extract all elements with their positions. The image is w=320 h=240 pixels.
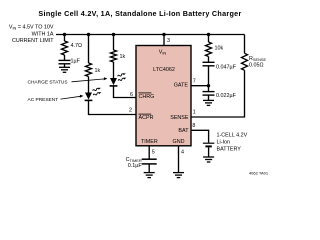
junction dot GATE node (207, 84, 210, 87)
svg-text:Li-Ion: Li-Ion (217, 140, 231, 146)
label AC PRESENT callout (28, 95, 84, 103)
svg-text:10k: 10k (215, 46, 224, 52)
wire rail to VIN pin 3 (163, 35, 165, 46)
LED D2 CHARGE STATUS (110, 73, 127, 86)
svg-text:5: 5 (152, 149, 155, 155)
wire R1k to LED (CHRG) (113, 62, 115, 78)
svg-text:1k: 1k (120, 54, 126, 60)
svg-text:SENSE: SENSE (170, 115, 189, 121)
wire rail down to RSENSE (244, 35, 246, 54)
svg-text:3: 3 (167, 38, 170, 44)
svg-text:1: 1 (193, 110, 196, 116)
resistor 4.7 ohm (62, 41, 83, 55)
wire R4.7 to C 1uF (64, 55, 66, 60)
ground under 0.022uF (203, 100, 214, 105)
svg-text:TIMER: TIMER (141, 139, 158, 145)
svg-text:0.022µF: 0.022µF (216, 93, 237, 99)
svg-text:0.1µF: 0.1µF (128, 163, 143, 169)
svg-text:4062 TA01: 4062 TA01 (249, 170, 269, 175)
svg-text:CURRENT LIMIT: CURRENT LIMIT (12, 38, 54, 44)
wire RSENSE to SENSE pin 1 (191, 70, 245, 117)
resistor RSENSE 0.05 ohm (242, 53, 267, 70)
ground under battery (203, 157, 214, 162)
wire rail to R 4.7 (64, 35, 66, 42)
wire rail to R1k (ACPR LED) (88, 35, 90, 64)
junction dot rail/10k (207, 33, 210, 36)
junction dot rail/1k(ACPR LED) (87, 33, 90, 36)
svg-text:4: 4 (181, 149, 184, 155)
LED D1 AC PRESENT (85, 88, 102, 101)
svg-text:LTC4062: LTC4062 (153, 67, 175, 73)
svg-text:GATE: GATE (174, 83, 189, 89)
svg-text:BATTERY: BATTERY (217, 147, 242, 153)
svg-text:2: 2 (129, 108, 132, 114)
wire R1k to LED (ACPR) (88, 77, 90, 93)
svg-text:CHRG: CHRG (139, 94, 155, 100)
wire R10k to C 0.047uF (208, 57, 210, 63)
wire BAT pin 8 (191, 130, 209, 142)
svg-text:CHARGE STATUS: CHARGE STATUS (28, 80, 68, 86)
label CHARGE STATUS callout (28, 77, 108, 85)
ground under CTIMER (144, 173, 155, 178)
resistor 1k (CHRG LED) (111, 50, 126, 62)
wire GND pin 4 (178, 146, 180, 173)
capacitor 0.022uF (203, 92, 237, 99)
wire rail to R1k (CHRG LED) (113, 35, 115, 51)
svg-text:0.047µF: 0.047µF (216, 65, 237, 71)
svg-text:6: 6 (130, 92, 133, 98)
svg-text:AC PRESENT: AC PRESENT (28, 97, 59, 103)
svg-text:VIN: VIN (159, 49, 167, 55)
wire VIN top rail (56, 34, 245, 36)
node VIN input label (9, 25, 54, 44)
svg-text:1µF: 1µF (71, 59, 81, 65)
wire LED to CHRG pin 6 (114, 86, 137, 98)
resistor 1k (ACPR LED) (86, 63, 101, 77)
svg-text:8: 8 (192, 123, 195, 129)
junction dot rail/VIN pin (162, 33, 165, 36)
svg-text:0.05Ω: 0.05Ω (249, 63, 264, 69)
svg-text:1-CELL 4.2V: 1-CELL 4.2V (217, 132, 248, 138)
wire rail to R10k (208, 35, 210, 43)
wire CTIMER to ground (148, 164, 150, 173)
svg-text:BAT: BAT (178, 128, 189, 134)
svg-text:7: 7 (193, 79, 196, 85)
wire C1uF to ground (64, 64, 66, 68)
junction dot rail/4.7R (63, 33, 66, 36)
svg-text:Single Cell 4.2V, 1A, Standalo: Single Cell 4.2V, 1A, Standalone Li-Ion … (38, 9, 241, 18)
svg-text:VIN = 4.5V TO 10V: VIN = 4.5V TO 10V (9, 25, 54, 31)
wire C0.022 to ground (208, 95, 210, 100)
svg-text:1k: 1k (95, 68, 101, 74)
op-amp U1 LTC4062 IC box (136, 46, 191, 146)
wire TIMER pin 5 (148, 146, 150, 159)
capacitor 1uF (59, 59, 81, 65)
svg-text:ACPR: ACPR (139, 115, 154, 121)
capacitor CTIMER 0.1uF (126, 157, 157, 169)
wire GATE pin 7 (191, 85, 209, 87)
junction dot rail/1k(CHRG LED) (112, 33, 115, 36)
svg-text:WITH 1A: WITH 1A (32, 31, 54, 37)
svg-text:RSENSE: RSENSE (249, 56, 267, 62)
ground under 1uF (59, 67, 70, 72)
svg-text:4.7Ω: 4.7Ω (71, 43, 83, 49)
resistor 10k (206, 42, 224, 57)
svg-text:GND: GND (173, 139, 185, 145)
wire LED to ACPR pin 2 (89, 100, 137, 114)
capacitor 0.047uF (203, 62, 237, 70)
battery BT1 1-cell Li-Ion (203, 132, 248, 157)
ground under GND pin (173, 173, 184, 178)
wire C0.047 to GATE node (208, 66, 210, 92)
